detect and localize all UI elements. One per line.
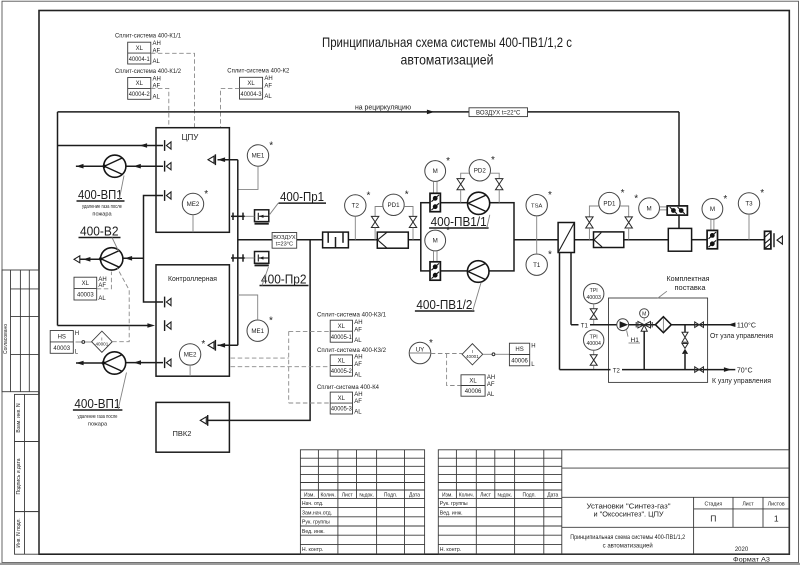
svg-text:M: M [710,206,715,213]
svg-text:AF: AF [487,382,495,388]
svg-text:*: * [723,194,727,205]
svg-text:автоматизацией: автоматизацией [401,52,494,68]
svg-text:XL: XL [82,281,90,287]
svg-text:AL: AL [153,59,161,65]
svg-text:40003: 40003 [586,295,601,301]
svg-text:400-ВП1: 400-ВП1 [78,187,123,202]
svg-text:Контроллерная: Контроллерная [168,274,217,283]
link diamond 40001 right [462,344,483,365]
svg-text:Рук. группы: Рук. группы [302,520,330,526]
svg-text:*: * [201,339,205,350]
fan 400-V2 [99,248,123,270]
svg-text:*: * [405,190,409,201]
label 400-V2 [79,223,121,251]
split system 400-K1/1 box XL 40004-1 [128,41,161,65]
hand switch HS 40003 box [50,331,79,356]
instrument circle TPI 40003 [584,284,604,304]
recirculation damper [660,206,688,215]
air heater coil [594,232,624,248]
packaged unit box [609,298,708,382]
label 400-PV1/1 [429,214,490,229]
svg-text:Зам.нач.отд.: Зам.нач.отд. [302,510,332,516]
svg-text:Комплектная: Комплектная [667,276,710,283]
signal wire split K1/1 to CPU [151,53,195,127]
svg-text:1: 1 [774,514,779,524]
fan 400-VP1 bottom [102,352,126,374]
duct main horizontal [238,239,765,241]
recirculation duct wire [58,110,680,115]
svg-text:40001: 40001 [96,342,109,347]
svg-text:AF: AF [98,283,106,289]
svg-text:M: M [642,311,646,317]
node circle to HS 40006 [483,353,510,356]
hand switch HS 40006 box [509,343,535,368]
svg-text:Н. контр.: Н. контр. [302,547,323,553]
recirculation drop wire [678,112,680,228]
svg-text:Подпись и дата: Подпись и дата [16,458,22,494]
room CPU box [156,128,229,233]
link diamond 40001 left [92,331,113,352]
svg-text:400-В2: 400-В2 [80,223,119,238]
svg-text:Лист: Лист [480,492,492,498]
split system 400-K4 box XL 40005-3 [330,392,362,416]
svg-text:пожара: пожара [88,421,108,427]
split system 400-K4 label [317,384,380,391]
svg-text:40004: 40004 [586,341,601,347]
svg-text:ME2: ME2 [187,201,200,208]
sidebar approval block [2,270,39,392]
sidebar inv podl block [15,512,40,555]
sidebar podpis data block [15,442,40,512]
svg-text:70°C: 70°C [737,366,753,374]
grille port [774,233,782,247]
svg-text:T1: T1 [533,262,541,269]
svg-text:AH: AH [153,76,161,82]
valve T2 outlet [695,367,704,373]
valve T1 outlet [695,322,704,328]
wire ME1 controller to signal line [238,295,258,320]
stamp table right main [438,450,789,554]
svg-text:AL: AL [354,338,362,344]
controller right port [208,340,215,351]
svg-text:40001: 40001 [466,354,479,359]
pipe T2 line [560,366,736,375]
svg-text:XL: XL [338,396,346,402]
air filter box [377,232,408,248]
split system 400-K1/2 box XL 40004-2 [128,76,161,100]
fan 400-PV1/2 [467,261,489,283]
wire T3 stem [748,214,750,240]
supply grille [765,231,771,249]
svg-text:M: M [433,168,438,175]
controller port 3 [165,357,171,368]
svg-text:XL: XL [469,378,477,384]
wire T2 stem [354,216,356,240]
damper PV1/2 [430,251,440,280]
svg-text:40003: 40003 [77,293,94,299]
actuator 400-Pr2 box [245,252,269,266]
instrument circle TPI 40004 [584,330,604,350]
svg-text:Вед. инж.: Вед. инж. [302,529,325,535]
label 70C to control unit [712,366,771,385]
sheet title [322,34,572,68]
wire fan VP1 exhaust [76,164,104,169]
svg-text:T1: T1 [581,323,589,329]
unit 400-PV1 group box [421,203,514,271]
signal wire split K1/2 to CPU [151,88,169,127]
wire branch to fan V2 [123,256,144,261]
svg-text:AH: AH [487,375,495,381]
svg-text:поставка: поставка [675,285,706,292]
wire CPU port1 to riser [58,143,164,148]
split system 400-K3/2 label [317,347,387,354]
pipe T1 line [571,321,735,330]
split system 400-K3/2 box XL 40005-2 [330,355,362,379]
svg-text:Вед. инж.: Вед. инж. [440,510,463,516]
svg-text:Лист: Лист [742,502,754,508]
svg-text:*: * [429,338,433,349]
svg-text:40005-2: 40005-2 [331,369,353,375]
sidebar vzam inv block [15,394,40,441]
impulse taps PD1 heater [586,206,633,240]
svg-text:От узла управления: От узла управления [710,331,773,340]
svg-text:AL: AL [98,296,106,302]
alarm box XL 40003 [74,277,107,302]
svg-text:40006: 40006 [465,389,482,395]
split system 400-K3/1 box XL 40005-1 [330,320,362,344]
check valve branch [682,325,688,370]
svg-text:*: * [548,190,552,201]
node circle HS [76,341,92,344]
fan 400-PV1/1 [468,192,490,214]
wire ME1 to signal line [238,166,258,189]
svg-text:*: * [491,155,495,166]
svg-text:и "Оксосинтез". ЦПУ: и "Оксосинтез". ЦПУ [594,512,665,519]
packaged unit label [658,276,710,298]
svg-text:XL: XL [247,81,255,87]
PVK2 port [200,415,207,426]
svg-text:Н. контр.: Н. контр. [440,547,461,553]
svg-text:T2: T2 [352,203,360,210]
signal wires controller to split boxes [231,331,331,403]
pump H1 [617,319,640,344]
heat recovery exchanger [558,223,574,253]
recirculation air label [355,104,411,111]
wire controller port3 to fan VP1 bottom [126,360,163,365]
svg-text:HS: HS [515,347,523,353]
svg-text:Сплит-система 400-К1/1: Сплит-система 400-К1/1 [115,32,182,39]
svg-text:№док.: №док. [359,492,374,498]
wire riser to controller port2 [58,323,156,328]
CPU port 2 [165,161,171,172]
wire CPU right port signal drop [218,157,238,345]
impulse taps PD1 filter [371,207,416,240]
svg-text:XL: XL [136,81,144,87]
svg-text:PD1: PD1 [603,200,616,207]
label 400-VP1 bottom [73,373,127,428]
svg-text:AH: AH [354,392,362,398]
svg-text:Нач. отд.: Нач. отд. [302,501,324,507]
svg-text:Рук. группы: Рук. группы [440,501,468,507]
valve TPI 40004 [590,350,597,369]
svg-text:*: * [269,140,273,151]
supply damper [707,219,717,248]
stamp table left [300,450,424,554]
svg-text:с автоматизацией: с автоматизацией [603,543,653,550]
wire ME2 stem [192,215,194,233]
wire CPU port3 down to controller room [144,196,164,303]
svg-text:Сплит-система 400-К1/2: Сплит-система 400-К1/2 [115,68,182,75]
svg-text:ПВК2: ПВК2 [173,429,192,438]
svg-text:40006: 40006 [511,358,528,364]
svg-text:удаление газа после: удаление газа после [78,414,118,420]
label 400-Pr2 [260,267,309,286]
svg-text:AL: AL [354,410,362,416]
wire T1 stem [536,240,538,254]
controller port 2 [165,320,171,331]
svg-text:Лист: Лист [342,492,354,498]
svg-text:T2: T2 [613,368,621,374]
svg-text:*: * [760,188,764,199]
svg-text:UY: UY [416,347,425,354]
svg-text:П: П [710,514,716,524]
svg-text:Инв. N подл.: Инв. N подл. [16,518,22,547]
fire damper 400-Pr1 [231,213,245,220]
signal wire split K2 to CPU [221,88,240,127]
svg-text:Принципиальная схема системы 4: Принципиальная схема системы 400-ПВ1/1,2… [322,34,572,50]
svg-text:удаление газа после: удаление газа после [82,204,122,210]
format label [733,557,770,564]
wire CPU port2 to fan VP1 [126,164,163,169]
svg-text:AH: AH [354,355,362,361]
svg-text:Формат А3: Формат А3 [733,557,770,564]
wire TSA stem [536,216,538,240]
svg-text:AF: AF [354,327,362,333]
svg-text:AL: AL [153,94,161,100]
air t=22C tag box [469,108,528,117]
svg-text:TPI: TPI [590,288,598,294]
fan 400-VP1 top [103,155,126,177]
svg-text:*: * [269,316,273,327]
three-way valve with motor M [636,309,652,370]
split system 400-K1/2 label [115,68,182,75]
svg-text:40003: 40003 [53,346,70,352]
svg-text:Колич.: Колич. [459,492,474,498]
svg-text:40004-2: 40004-2 [129,92,151,98]
split system 400-K1/1 label [115,32,182,39]
wire XL40003 to fan V2 dashed [97,272,112,289]
svg-text:*: * [446,226,450,237]
svg-text:AH: AH [354,320,362,326]
svg-text:40004-3: 40004-3 [241,92,263,98]
svg-text:ВОЗДУХ t=22°C: ВОЗДУХ t=22°C [476,110,521,116]
svg-text:400-ПВ1/1: 400-ПВ1/1 [431,214,487,229]
svg-text:Листов: Листов [768,502,785,508]
controller port 1 [165,297,171,308]
fire damper 400-Pr2 [231,254,245,261]
flexible connector [323,232,349,248]
svg-text:400-ПВ1/2: 400-ПВ1/2 [416,297,472,312]
CPU right port [208,154,215,165]
svg-text:H: H [531,343,535,349]
split system 400-K2 box XL 40004-3 [240,76,273,100]
svg-text:XL: XL [338,358,346,364]
svg-text:К узлу управления: К узлу управления [712,376,771,385]
svg-text:AL: AL [354,372,362,378]
svg-text:AF: AF [354,399,362,405]
svg-text:HS: HS [58,334,66,340]
room controller box [156,265,229,376]
damper PV1/1 [430,181,440,211]
wire PVK2 feed [208,240,310,421]
wire controller right port arrow [218,343,238,348]
svg-text:2020: 2020 [735,547,749,553]
svg-text:ЦПУ: ЦПУ [182,133,200,142]
CPU port 1 [165,140,171,151]
room PVK2 box [156,402,229,452]
svg-text:Подп.: Подп. [384,492,397,498]
svg-text:AH: AH [264,76,272,82]
svg-text:ME1: ME1 [251,328,264,335]
svg-text:AL: AL [264,94,272,100]
label 400-Pr1 [269,189,326,215]
svg-text:AH: AH [153,41,161,47]
svg-text:Колич.: Колич. [321,492,336,498]
split system 400-K2 label [227,68,290,75]
svg-text:Изм.: Изм. [442,492,453,498]
svg-text:ME2: ME2 [184,352,197,359]
svg-text:ME1: ME1 [252,153,265,160]
svg-text:400-ВП1: 400-ВП1 [74,396,120,411]
wire diamond to fan V2 dashed [112,268,129,342]
svg-text:TSA: TSA [531,203,542,209]
svg-text:*: * [367,190,371,201]
label 400-VP1 top [77,176,125,218]
svg-text:*: * [446,156,450,167]
svg-text:*: * [621,188,625,199]
strainer filter diamond [655,317,671,333]
split system 400-K3/1 label [317,312,387,319]
wire fan VP1 bottom exhaust [76,361,103,366]
svg-text:XL: XL [136,46,144,52]
wire ME2 controller stem [189,365,191,376]
svg-text:Подп.: Подп. [523,492,536,498]
alarm box XL 40006 [461,375,495,398]
svg-text:H: H [75,331,79,337]
svg-text:400-Пр2: 400-Пр2 [261,271,307,286]
svg-text:*: * [548,250,552,261]
svg-text:Дата: Дата [547,492,558,498]
valve TPI 40003 [590,304,597,325]
svg-text:40005-3: 40005-3 [331,407,353,413]
CPU port 3 [165,190,171,201]
label 400-PV1/2 [415,283,481,312]
actuator 400-Pr1 box [245,210,269,224]
svg-text:пожара: пожара [92,212,112,218]
svg-text:Стадия: Стадия [704,502,722,508]
svg-text:XL: XL [338,324,346,330]
svg-text:Согласовано: Согласовано [3,324,9,354]
pipes from heat exchanger [560,253,572,370]
svg-text:Дата: Дата [409,492,420,498]
left riser wire [57,112,59,326]
svg-text:M: M [647,206,652,213]
svg-text:Изм.: Изм. [304,492,315,498]
svg-text:Сплит-система 400-К2: Сплит-система 400-К2 [227,68,290,75]
wire fan V2 exhaust [74,256,101,263]
svg-text:110°C: 110°C [737,321,756,329]
svg-text:t=23°C: t=23°C [276,242,293,248]
instrument circle UY [409,338,433,364]
svg-text:TPI: TPI [590,334,598,340]
svg-text:AF: AF [264,84,272,90]
svg-text:T3: T3 [745,201,753,208]
impulse taps PD2 [457,173,503,203]
mixing box [668,228,691,251]
wire UY dashed [431,354,462,386]
svg-text:40004-1: 40004-1 [129,57,151,63]
svg-text:AL: AL [487,392,495,398]
svg-text:№док.: №док. [497,492,512,498]
svg-text:*: * [634,193,638,204]
svg-text:40005-1: 40005-1 [331,335,353,341]
svg-text:Сплит-система 400-К3/2: Сплит-система 400-К3/2 [317,347,387,354]
label 110C from control unit [710,321,773,340]
svg-text:AF: AF [354,362,362,368]
svg-text:Принципиальная схема системы 4: Принципиальная схема системы 400-ПВ1/1,2 [570,535,686,541]
svg-text:PD1: PD1 [387,202,400,209]
svg-text:Сплит-система 400-К4: Сплит-система 400-К4 [317,384,380,391]
svg-text:*: * [204,189,208,200]
air t=23C tag box [272,233,297,249]
svg-text:400-Пр1: 400-Пр1 [280,189,324,204]
svg-text:ВОЗДУХ: ВОЗДУХ [273,235,296,241]
svg-text:Взам. инв. N: Взам. инв. N [16,403,22,433]
svg-text:на рециркуляцию: на рециркуляцию [355,104,411,111]
svg-text:Установки "Синтез-газ": Установки "Синтез-газ" [587,504,672,511]
svg-text:M: M [433,238,438,245]
svg-text:PD2: PD2 [474,168,487,175]
svg-text:Сплит-система 400-К3/1: Сплит-система 400-К3/1 [317,312,387,319]
